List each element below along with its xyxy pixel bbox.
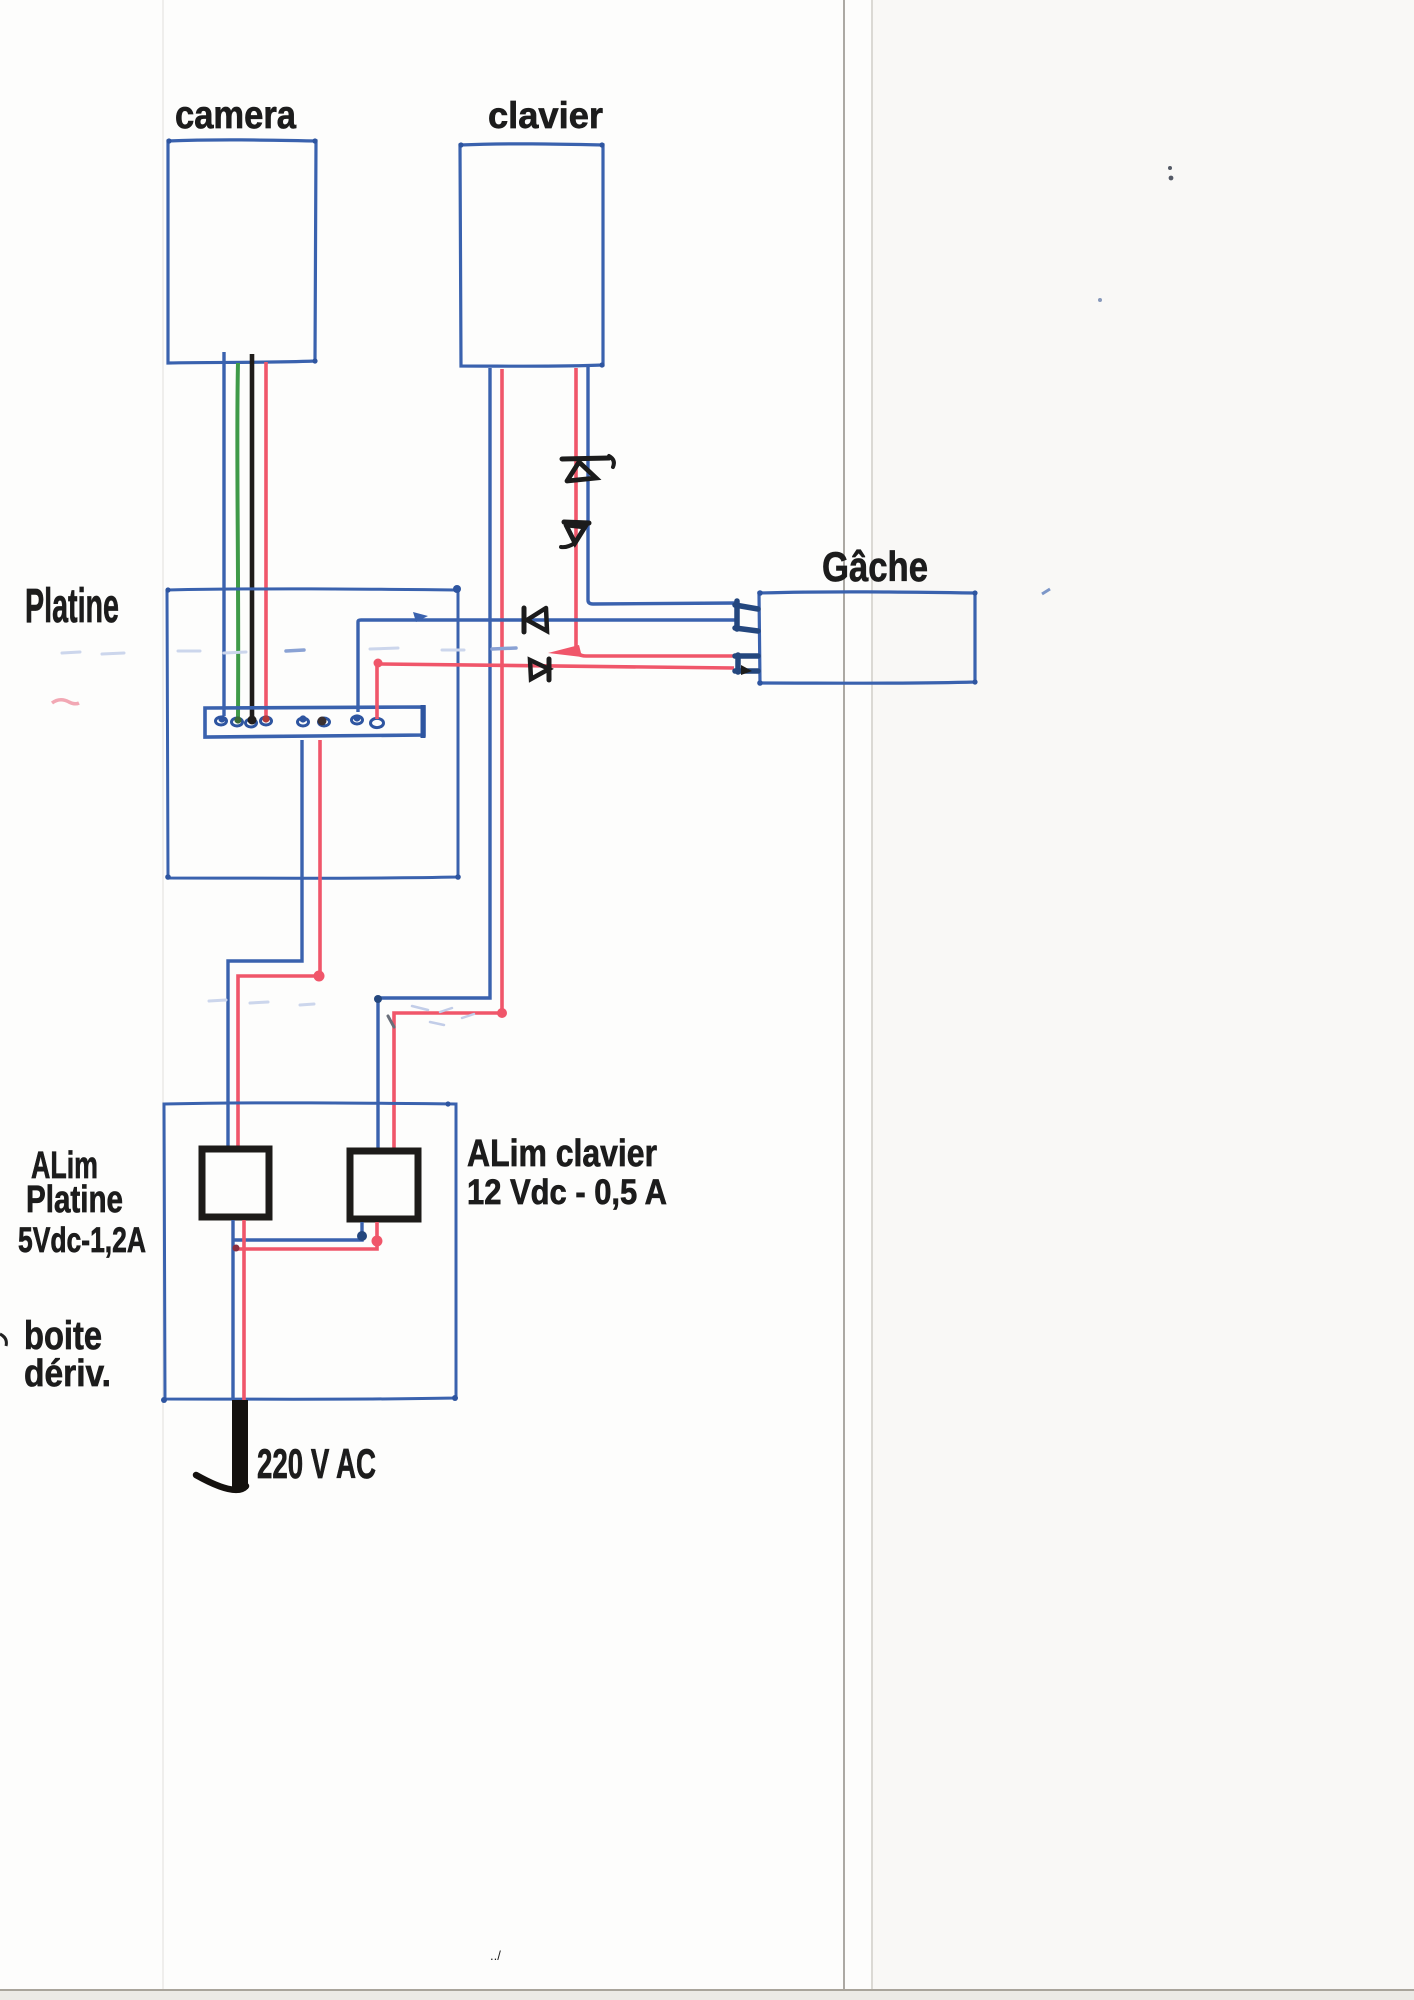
svg-text:Platine: Platine (26, 1179, 123, 1221)
wire clavier red to gache (576, 368, 736, 656)
boite deriv box (164, 1103, 456, 1399)
svg-text:../: ../ (490, 1948, 501, 1963)
svg-text:boite: boite (24, 1314, 102, 1358)
wire clavier red feed (394, 369, 502, 1148)
diode D1 on red vertical (562, 456, 614, 481)
wire camera red (264, 362, 268, 718)
junction arrow red (548, 645, 582, 657)
diode D3 on blue line (524, 608, 547, 632)
wire clavier blue feed (378, 368, 490, 1148)
scan artifact dashes lower (209, 1000, 314, 1005)
blue arrowhead (413, 612, 428, 622)
svg-text:ALim clavier: ALim clavier (467, 1133, 657, 1175)
tiny scan marks (1168, 166, 1172, 170)
svg-text:5Vdc-1,2A: 5Vdc-1,2A (18, 1221, 146, 1260)
platine box (167, 589, 458, 878)
terminal ovals (216, 716, 384, 728)
svg-text:camera: camera (175, 94, 296, 137)
scan fold line center dark (843, 0, 845, 2000)
diode D2 on red vertical (561, 522, 589, 547)
wire clavier blue to gache (588, 366, 737, 604)
wire camera green (235, 363, 240, 718)
svg-text:Platine: Platine (25, 580, 119, 633)
gache terminal bracket top (735, 601, 758, 631)
scan fold line light (871, 0, 873, 2000)
scan artifact pink dash (52, 700, 79, 704)
gache terminal bracket bottom (735, 655, 758, 672)
wire platine red down (238, 740, 320, 1146)
svg-text:12 Vdc - 0,5 A: 12 Vdc - 0,5 A (467, 1173, 667, 1212)
wire camera black (250, 354, 255, 718)
mains cable 220V (232, 1400, 248, 1489)
scan margin line left (162, 0, 164, 2000)
wire mains red (242, 1220, 246, 1401)
svg-text:clavier: clavier (488, 95, 603, 136)
wire platine red to gache (377, 664, 734, 719)
gache box (759, 592, 975, 683)
svg-text:Gâche: Gâche (822, 543, 928, 590)
paper bottom edge (0, 1989, 1414, 1991)
terminal strip (205, 707, 424, 737)
wire platine blue down (228, 740, 302, 1146)
wire camera blue (222, 352, 225, 716)
wire end blobs (218, 715, 225, 722)
svg-text:220 V AC: 220 V AC (257, 1440, 376, 1487)
clavier box (460, 144, 603, 366)
diode D4 on red line (530, 659, 549, 680)
psu ALim clavier box (350, 1151, 418, 1219)
psu ALim platine box (202, 1149, 269, 1217)
scan artifact blue dashes (62, 648, 464, 654)
svg-text:dériv.: dériv. (24, 1353, 111, 1395)
camera box (168, 140, 316, 363)
wire mains blue (231, 1220, 234, 1399)
wire platine blue to gache (358, 620, 735, 712)
